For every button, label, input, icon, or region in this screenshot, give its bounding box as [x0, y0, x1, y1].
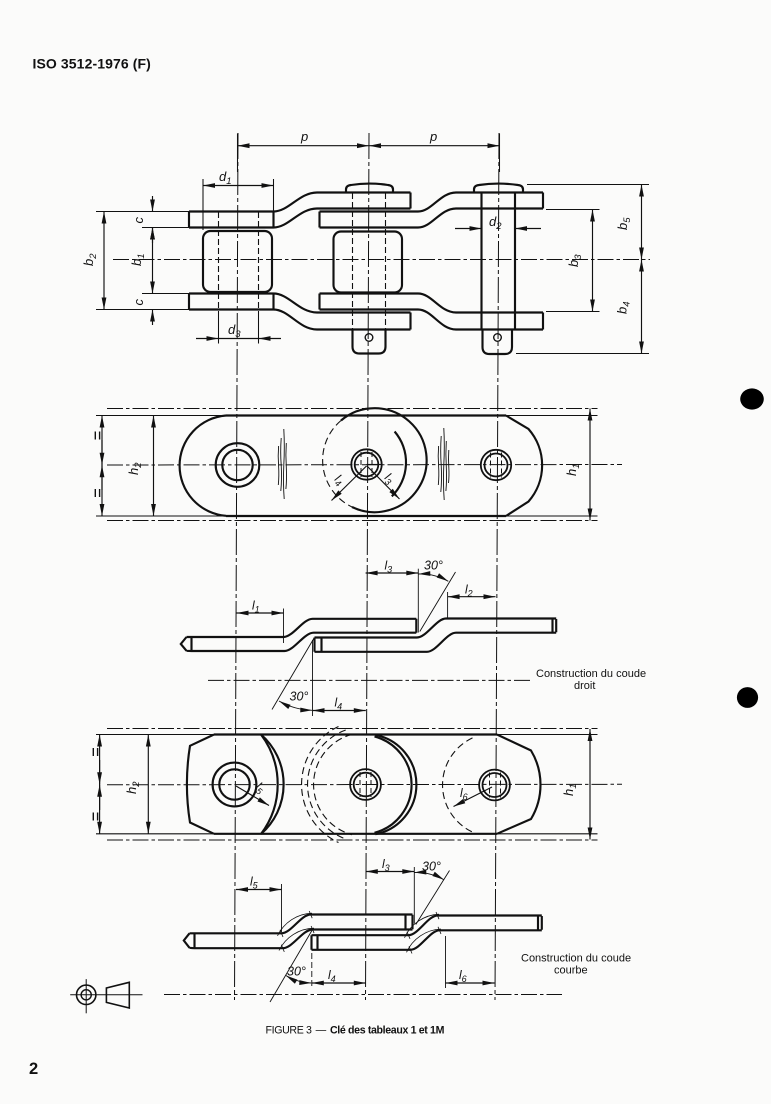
svg-text:p: p: [429, 129, 437, 144]
svg-text:l3: l3: [381, 470, 397, 487]
construction vertical at l4 view3: [312, 640, 314, 716]
dimension l5: [236, 889, 282, 891]
construction dashed arc right r52: [443, 738, 473, 832]
link bottom edge: [226, 515, 506, 517]
elbow band around left bush outer arc: [261, 735, 284, 835]
bush hole circle left view4: [219, 769, 249, 799]
equal mark bottom: [95, 489, 99, 497]
svg-text:l3: l3: [382, 857, 390, 873]
link B top inner plate: [320, 212, 419, 228]
dimension b4: [641, 260, 643, 354]
pin hole middle outer view4: [350, 769, 381, 800]
pin hole middle inner view4: [354, 773, 378, 797]
pin flats right hole view4: [490, 773, 501, 798]
link narrow end nose: [180, 416, 226, 516]
pin flats middle hole view4: [360, 772, 371, 797]
svg-text:ISO 3512-1976 (F): ISO 3512-1976 (F): [33, 56, 151, 72]
svg-text:b2: b2: [81, 253, 99, 266]
extension lines b3: [546, 210, 600, 312]
extension line l1 right: [283, 609, 285, 644]
pin hole middle inner: [355, 453, 379, 477]
dimension p right: [369, 145, 500, 147]
equal mark top: [95, 432, 99, 440]
svg-text:c: c: [131, 217, 146, 224]
chain line pin 2 vertical: [366, 133, 370, 1000]
bush hole circle left: [222, 450, 252, 480]
arc 30 deg upper view5: [414, 872, 444, 879]
construction diagonal 30 deg upper view5: [416, 871, 450, 925]
extension line b5 top: [527, 184, 649, 186]
dimension l1: [237, 612, 284, 614]
extension lines d1: [203, 179, 274, 230]
svg-text:30°: 30°: [287, 965, 306, 979]
pin 3 cotter hole: [494, 334, 502, 342]
dimension b1: [152, 228, 154, 294]
link B cranked bottom plate: [418, 294, 543, 330]
pin 3 head cap: [474, 184, 523, 193]
link A cranked bottom plate: [274, 294, 411, 330]
dimension d2 arrows: [455, 228, 482, 230]
dimension l3 view5: [366, 871, 415, 873]
phantom outline h1 bottom: [107, 520, 598, 522]
centerline horizontal view1: [113, 259, 650, 261]
link B bushing block: [334, 232, 403, 293]
centerline view5: [164, 994, 562, 996]
dimension d3 arrows: [196, 338, 219, 340]
elbow band around left bush inner arc: [261, 735, 278, 835]
svg-text:h2: h2: [124, 781, 142, 794]
hidden hole lines link A: [219, 212, 259, 309]
forge texture marks left: [278, 429, 286, 499]
equal mark top view4: [93, 748, 97, 756]
arc 30 deg lower view3: [279, 701, 312, 710]
chain line pin 3 vertical: [495, 133, 499, 1000]
hidden pin lines link B: [353, 193, 386, 329]
arc 30 deg lower view5: [286, 976, 312, 984]
scanner blob 2: [737, 687, 758, 708]
construction vertical at l4 view5: [311, 935, 313, 988]
forge texture marks right: [438, 428, 449, 500]
dimension l2: [448, 596, 496, 598]
bend construction arc right top: [405, 914, 440, 938]
leader l3: [367, 466, 400, 499]
svg-text:l2: l2: [465, 583, 473, 599]
svg-text:l4: l4: [331, 472, 347, 489]
pin flats middle hole: [361, 452, 372, 477]
bush outer circle left: [216, 443, 260, 487]
dimension h2 view4: [147, 735, 149, 834]
link bottom edge view4: [214, 833, 497, 835]
dimension h1 view4: [589, 729, 591, 840]
leader l5: [236, 786, 269, 806]
svg-text:b5: b5: [615, 217, 633, 230]
svg-text:h1: h1: [564, 463, 582, 476]
phantom outline h1 top view4: [107, 728, 598, 730]
dimension l6: [446, 982, 495, 984]
svg-text:l5: l5: [250, 875, 259, 891]
svg-text:d1: d1: [219, 169, 232, 187]
svg-text:b1: b1: [129, 253, 147, 266]
narrow end nose view4: [187, 735, 214, 834]
plate A profile view5: [184, 915, 413, 949]
dimension equal halves view4: [99, 735, 101, 834]
extension line l6: [445, 936, 447, 988]
extension lines p: [238, 134, 500, 173]
link top edge: [226, 414, 506, 416]
bend tangent ticks left crank: [280, 911, 314, 952]
link B bottom inner plate: [320, 294, 419, 310]
extension lines h2 left: [96, 416, 226, 517]
dimension c top arrows: [152, 196, 154, 212]
svg-text:p: p: [300, 129, 308, 144]
coude band outer solid arc: [341, 408, 427, 512]
svg-text:droit: droit: [574, 680, 595, 692]
tick middle hole: [367, 464, 382, 466]
link B cranked top plate: [418, 193, 543, 228]
extension lines d3: [219, 311, 259, 344]
link A cranked top plate: [274, 193, 411, 228]
phantom outline h1 bottom view4: [107, 839, 598, 841]
extension lines right: [506, 416, 598, 517]
bend construction arc left top: [278, 913, 313, 936]
bush outer circle left view4: [213, 763, 257, 807]
pin flats right hole: [491, 453, 502, 478]
svg-text:l4: l4: [335, 696, 343, 712]
dimension p left: [238, 145, 370, 147]
coude band inner solid arc: [392, 432, 406, 497]
svg-text:l1: l1: [252, 599, 260, 615]
plate B profile view5: [312, 916, 542, 950]
construction dashed arc middle r58: [308, 730, 346, 839]
extension lines right view4: [497, 735, 598, 834]
dimension l3: [366, 572, 419, 574]
dimension h2: [153, 416, 155, 517]
svg-text:b3: b3: [566, 254, 584, 267]
dimension b2: [103, 212, 105, 310]
extension line b4 bottom: [516, 353, 649, 355]
first-angle projection symbol: [70, 979, 142, 1013]
svg-text:l4: l4: [328, 968, 336, 984]
svg-text:l6: l6: [460, 786, 468, 802]
dimension equal halves: [101, 416, 103, 517]
dimension d1: [203, 185, 274, 187]
wide end nose view4: [497, 735, 540, 834]
svg-text:c: c: [131, 299, 146, 306]
elbow band middle outer arc: [375, 735, 416, 834]
link top edge view4: [214, 733, 497, 735]
dimension l4: [313, 710, 366, 712]
scanner blob 1: [740, 388, 764, 409]
svg-text:l6: l6: [459, 968, 467, 984]
svg-text:d2: d2: [489, 214, 502, 232]
centerline horizontal view4: [107, 783, 622, 786]
svg-text:courbe: courbe: [554, 965, 588, 977]
svg-text:Construction du coude: Construction du coude: [536, 668, 646, 680]
extension lines left side: [96, 212, 204, 310]
plate B profile view3: [315, 619, 557, 652]
svg-text:30°: 30°: [290, 690, 309, 704]
construction dashed arc middle r52: [314, 734, 352, 834]
link A bushing block: [203, 231, 272, 292]
pin hole middle outer: [351, 449, 381, 479]
leader l4: [332, 466, 367, 501]
bend construction arc right bottom: [407, 929, 442, 952]
pin hole right inner view4: [483, 773, 507, 797]
construction vertical at l3 view3: [417, 569, 419, 633]
svg-text:30°: 30°: [422, 860, 441, 874]
svg-text:b4: b4: [615, 301, 633, 314]
pin 3 lower tongue: [483, 331, 513, 355]
construction diagonal 30 deg lower view5: [270, 930, 313, 1003]
pin hole right inner: [485, 454, 508, 477]
svg-text:30°: 30°: [424, 559, 443, 573]
svg-text:FIGURE 3 — Clé des tableaux 1: FIGURE 3 — Clé des tableaux 1 et 1M: [266, 1025, 445, 1037]
dimension c bottom arrow: [152, 310, 154, 326]
construction vertical at l3 view5: [413, 867, 415, 924]
link A top inner plate: [189, 212, 274, 228]
bend tangent ticks right crank: [407, 912, 441, 954]
pin hole right outer view4: [479, 770, 510, 801]
dimension b5: [641, 185, 643, 260]
svg-text:h2: h2: [126, 462, 144, 475]
bend construction arc left bottom: [279, 928, 314, 950]
pin 2 head cap: [346, 184, 393, 193]
link wide end nose: [506, 416, 542, 517]
pin hole right outer: [481, 450, 511, 480]
phantom outline h1 top: [107, 408, 598, 410]
svg-text:2: 2: [29, 1060, 38, 1078]
svg-text:Construction du coude: Construction du coude: [521, 953, 631, 965]
extension line l2 left: [447, 592, 449, 619]
svg-text:d3: d3: [228, 322, 241, 340]
extension line l5: [281, 884, 283, 932]
chain line pin 1 vertical: [235, 133, 239, 1000]
pin 3 body: [482, 193, 516, 331]
leader l6: [454, 787, 493, 807]
dimension h1: [589, 409, 591, 521]
construction diagonal 30 deg lower view3: [272, 639, 314, 710]
arc 30 deg upper view3: [418, 574, 448, 581]
centerline view3: [208, 679, 532, 681]
svg-text:l3: l3: [385, 559, 393, 575]
plate A profile view3: [181, 619, 416, 651]
extension lines h2 left view4: [96, 735, 222, 834]
dimension l4 view5: [312, 982, 366, 984]
coude dashed construction circle: [323, 421, 352, 508]
construction dashed arc middle r64: [302, 727, 339, 843]
pin 2 cotter hole: [365, 334, 373, 342]
centerline horizontal view2: [107, 464, 622, 467]
link A bottom inner plate: [189, 294, 274, 310]
svg-text:h1: h1: [561, 783, 579, 796]
dimension b3: [592, 210, 594, 312]
pin 2 lower tongue: [353, 330, 386, 354]
elbow band middle inner arc: [375, 737, 412, 833]
construction diagonal 30 deg upper view3: [420, 572, 456, 632]
equal mark bottom view4: [93, 813, 97, 821]
